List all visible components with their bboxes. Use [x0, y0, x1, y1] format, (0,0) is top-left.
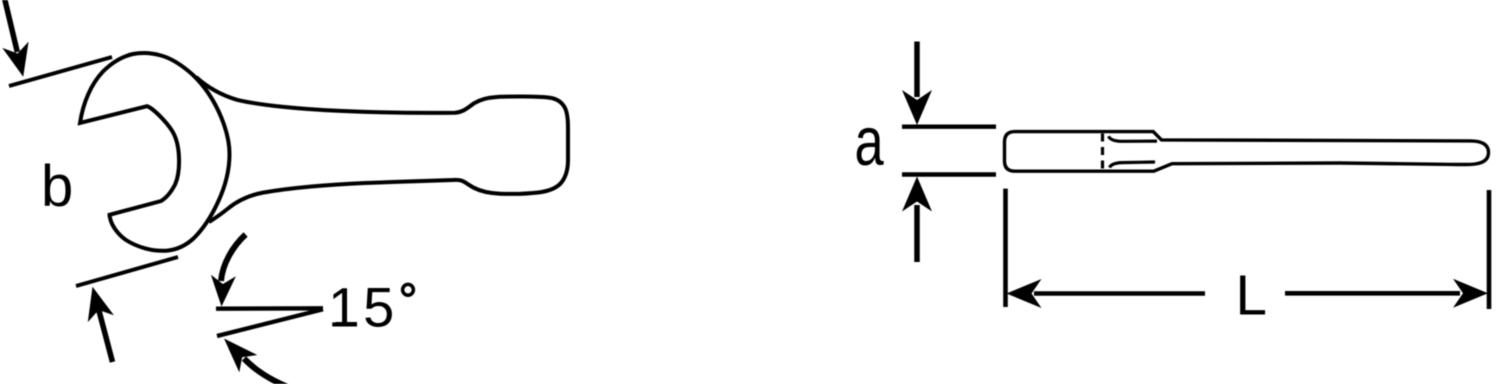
inner upper jaw edge line [1109, 136, 1158, 141]
15 deg angle lower line [217, 309, 323, 336]
hidden edge dashed line [1101, 134, 1104, 172]
a dimension lower extension line [902, 172, 996, 176]
b dimension upper extension line [9, 57, 112, 86]
foot serif of digit 1 [336, 322, 358, 327]
a dimension down arrow [902, 90, 932, 125]
side view outer profile: head plate, chamfers, thin handle with round end [1005, 132, 1489, 172]
degree symbol [403, 284, 414, 295]
15 deg lower curved arrow [244, 359, 290, 384]
svg-text:a: a [855, 103, 885, 180]
L dimension line right segment with right arrow [1453, 279, 1488, 308]
15 deg angle upper line [216, 306, 323, 311]
L dimension line left segment with left arrow [1007, 279, 1042, 308]
wrench head outline with open jaw [80, 53, 230, 251]
wrench handle and striking end outline [196, 77, 568, 222]
svg-text:b: b [41, 154, 73, 219]
a dimension up arrow [902, 177, 932, 212]
inner lower jaw edge line [1110, 162, 1156, 168]
b dimension upper arrow [2, 42, 28, 77]
15 deg upper curved arrow [221, 235, 246, 282]
a dimension upper extension line [902, 124, 996, 128]
svg-text:L: L [1236, 264, 1267, 327]
L dimension right extension line [1487, 190, 1492, 309]
b dimension lower arrow [88, 287, 114, 322]
b dimension lower extension line [76, 257, 178, 286]
L dimension left extension line [1003, 189, 1008, 307]
svg-text:15: 15 [328, 276, 398, 339]
